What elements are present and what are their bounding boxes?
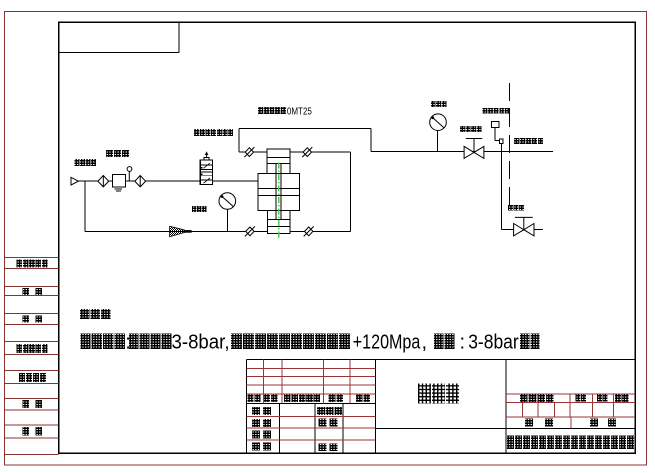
pump piston rod left edge (275, 164, 277, 220)
svg-text:3-8bar,: 3-8bar, (172, 331, 230, 353)
wire: branch vertical to supply line (84, 181, 86, 231)
gas booster pump: bottom cap C (267, 219, 290, 226)
valve V1 actuator cap (204, 158, 209, 160)
check valve top-right (302, 147, 312, 157)
row: riqi2 (319, 443, 338, 451)
check valve bottom-left (245, 226, 255, 236)
pressure transducer square (500, 139, 504, 143)
cell: di (590, 419, 598, 427)
left margin label: qianzi (23, 400, 30, 408)
revision header bottom (246, 402, 375, 404)
header: biaoji (248, 395, 261, 402)
label: pressure gauge (inlet) (192, 206, 207, 212)
left margin column ruling (5, 258, 59, 455)
header: qianzi (329, 395, 343, 402)
right sub-table red col x=592.3 (591, 394, 593, 417)
wire: drain to unloading valve (501, 229, 513, 231)
revision table red row line y=376.3 (246, 375, 375, 377)
wire: high pressure output line (371, 151, 553, 153)
check valve top-left (244, 147, 254, 157)
regulator drain mark upper (115, 188, 123, 190)
unloading valve (514, 217, 534, 236)
left margin label: old base dwg no. (17, 344, 48, 353)
wire: check valve manifold vertical (349, 152, 351, 231)
rheader: zhongliang (597, 394, 607, 401)
wire: top bridge left drop (238, 128, 240, 152)
label: manual or solenoid valve (194, 129, 233, 136)
tech text: kongqi (520, 334, 540, 350)
air filter 1 (98, 176, 109, 187)
label: high pressure stop valve (460, 126, 482, 132)
wire: relief drain vertical (500, 152, 502, 230)
top-left info box right edge (178, 22, 180, 52)
revision table red row line y=416.4 (246, 415, 375, 417)
recorder stem vertical (494, 128, 496, 141)
title name cell right edge (505, 359, 507, 453)
header: chushu (264, 395, 278, 402)
revision table red row line y=428.1 (246, 427, 375, 429)
right sub-table red col3 (570, 417, 572, 429)
row: sheji (252, 407, 271, 415)
revision table right edge (375, 359, 377, 453)
left margin label: qianzi2 (36, 400, 43, 408)
svg-text:,: , (422, 331, 428, 353)
check valve bottom-right (304, 226, 314, 236)
wire: unloading valve outlet (534, 229, 543, 231)
row: zhitu (252, 419, 271, 427)
label: drive air source (75, 159, 97, 166)
cell: zhang2 (608, 419, 616, 427)
pump body divider lower (258, 195, 299, 197)
company name (507, 436, 634, 449)
revision table red column x=281.8 (281, 359, 283, 403)
pump bottom neck right wall (289, 211, 291, 220)
pressure regulator box (112, 174, 125, 187)
revision table red row line y=393.9 (246, 393, 375, 395)
regulator drain mark lower (116, 190, 121, 192)
right sub-table red col2 x=522.5 (522, 402, 524, 417)
pump piston rod right edge (280, 164, 282, 220)
wire: pump top port line (239, 151, 350, 153)
svg-text:3-8bar: 3-8bar (468, 331, 519, 353)
recorder stem horizontal (495, 139, 501, 141)
rheader: tuyangbiaoji (520, 394, 553, 402)
header: genggai wenjianhao (284, 395, 320, 402)
right sub-table red row y=417.0 (506, 416, 635, 418)
pump bottom neck left wall (266, 211, 268, 220)
rheader: shuliang (576, 394, 586, 401)
transducer stem (500, 144, 502, 152)
wire: drive air line (78, 180, 258, 182)
tech text: qudongqiya (129, 334, 172, 350)
pump top neck right wall (289, 164, 291, 174)
right sub-table red col x=613.6 (613, 394, 615, 417)
revision table red column x=349.9 (349, 359, 351, 403)
revision table red column x=263.5 (263, 359, 265, 403)
svg-text::: : (460, 331, 466, 353)
pump green center line (278, 163, 280, 238)
rheader: bili (615, 394, 629, 402)
wire: top bridge right drop (370, 128, 372, 151)
left margin label: zhitu2 (36, 288, 43, 295)
left margin label: riqi2 (36, 427, 43, 436)
gas booster pump: top cap A (267, 149, 290, 157)
svg-text:0MT25: 0MT25 (287, 105, 312, 117)
left margin label: shenhe2 (36, 315, 43, 322)
high pressure stop valve (464, 139, 484, 159)
label: unloading valve (508, 205, 524, 210)
muffler / inlet wedge (170, 226, 192, 236)
row: shenhe (252, 431, 271, 439)
air source inlet symbol (71, 177, 78, 185)
wire: output gauge stem (437, 124, 439, 152)
manual/solenoid valve V1 body (200, 160, 212, 184)
right sub-table red row y=402.3 (506, 401, 635, 403)
instrument dashed line (509, 83, 511, 212)
pressure recorder box (491, 122, 499, 128)
air filter 2 (135, 176, 146, 187)
label: FRL unit (106, 150, 129, 157)
right sub-table red col2 x=537.9 (537, 402, 539, 417)
wire: bottom supply line (85, 230, 351, 232)
label: pressure gauge (output) (431, 101, 447, 107)
title block top edge (246, 358, 635, 360)
regulator gauge (127, 167, 132, 182)
pump top neck left wall (266, 164, 268, 174)
pump body divider upper (258, 187, 299, 189)
cell: zhang (545, 419, 553, 427)
label: gas booster pump (258, 107, 286, 114)
top-left info box bottom edge (59, 51, 180, 53)
title block middle divider (376, 428, 636, 430)
left margin label: zhitu (23, 288, 30, 295)
title block left edge (245, 359, 247, 453)
revision table red row line y=385.0 (246, 384, 375, 386)
left margin label: riqi (23, 427, 30, 436)
pressure gauge (inlet) (219, 193, 236, 210)
label: pressure transducer (514, 138, 543, 144)
right sub-table red col x=569.8 (569, 394, 571, 417)
wire: inlet gauge stem (226, 205, 228, 231)
tech text: edingshuchuyali-rukouyali (231, 334, 350, 350)
title: yuanlitu (schematic diagram) (418, 384, 459, 404)
right sub-table red col2 x=554.4 (553, 402, 555, 417)
left margin label: shenhe (23, 315, 30, 322)
revision table inner vertical 2 (314, 403, 316, 453)
wire: top bridge line (239, 127, 371, 129)
valve V1 top arrow (205, 151, 208, 158)
gas booster pump: bottom cap D (267, 227, 290, 234)
gas booster pump: top cap B (267, 158, 290, 164)
left margin label: document no. (17, 259, 48, 267)
revision table inner vertical 3 (342, 403, 344, 453)
revision table inner vertical 1 (279, 403, 281, 453)
row: gongyi (252, 442, 271, 450)
label: nitrogen bottle (80, 309, 110, 319)
left margin label: base dwg no. (19, 373, 46, 382)
right sub-table red row y=394.0 (506, 393, 635, 395)
tech text: jishucanshu (80, 334, 125, 350)
label: pressure recorder (483, 108, 510, 113)
cell: gong (525, 419, 533, 427)
row: shending (319, 419, 338, 427)
row: biaozhunhua (317, 407, 342, 415)
pressure gauge (output) (430, 114, 447, 131)
tech text: jiezhi (434, 334, 454, 350)
svg-text:+120Mpa: +120Mpa (353, 331, 421, 353)
revision table red row line y=368.3 (246, 367, 375, 369)
gas booster pump: drive body (258, 174, 299, 211)
revision table red row line y=439.8 (246, 439, 375, 441)
header: riqi (356, 395, 370, 402)
revision table red column x=323.7 (323, 359, 325, 403)
